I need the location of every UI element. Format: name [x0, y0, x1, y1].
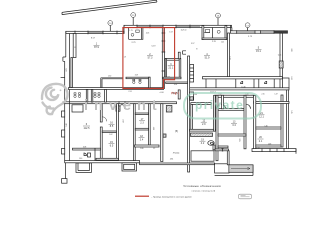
svg-text:87.9: 87.9	[94, 46, 99, 49]
WC fixtures in red unit	[133, 79, 142, 83]
svg-text:1.47: 1.47	[274, 93, 277, 95]
wall y101.8 left-middle	[63, 101, 177, 109]
svg-text:2.15: 2.15	[261, 93, 264, 95]
svg-text:8.5: 8.5	[110, 125, 114, 128]
wall x133.4	[133, 104, 135, 161]
shaft duct	[190, 65, 194, 83]
top-left small room in red unit	[129, 28, 143, 40]
svg-text:1.67: 1.67	[169, 32, 172, 34]
small gray stamp bottom right	[239, 194, 252, 199]
svg-text:17: 17	[141, 118, 144, 121]
small red-unit WC room walls	[126, 77, 150, 88]
red area label	[172, 91, 179, 95]
room number/area labels	[83, 43, 265, 155]
bottom wall middle y163	[140, 163, 215, 165]
staircase treads with arrow	[229, 165, 253, 173]
svg-text:4.84: 4.84	[170, 159, 173, 161]
wall y134 middle-right	[218, 134, 246, 136]
stair landing	[215, 164, 229, 173]
svg-text:1.48: 1.48	[268, 144, 271, 146]
axis circle 17	[245, 23, 250, 31]
svg-text:15: 15	[110, 141, 113, 144]
axis circle 16	[216, 13, 221, 25]
svg-text:invent: invent	[84, 98, 163, 114]
diagonal bar wall top-left	[62, 0, 157, 14]
axis circle 13	[131, 13, 136, 26]
WC room left cluster	[86, 90, 106, 103]
svg-text:2.43: 2.43	[290, 76, 292, 79]
svg-text:3.4: 3.4	[232, 124, 236, 127]
left exterior wall	[61, 32, 70, 184]
svg-text:15.1: 15.1	[256, 50, 261, 53]
svg-text:0.25: 0.25	[278, 55, 281, 57]
svg-text:ЛТ(2-Б): ЛТ(2-Б)	[173, 153, 180, 155]
svg-text:16: 16	[110, 122, 113, 125]
wall x116.5	[117, 104, 119, 161]
svg-text:1.93: 1.93	[229, 57, 231, 60]
wall x228 middle-right	[228, 33, 230, 77]
svg-text:57.3: 57.3	[148, 56, 153, 59]
red unit boundary	[123, 28, 175, 89]
svg-text:10.40: 10.40	[241, 86, 245, 88]
svg-text:1: 1	[96, 43, 98, 46]
svg-text:4.54: 4.54	[174, 84, 177, 86]
duct strip x73.5	[73, 34, 76, 58]
corridor bottom wall	[166, 82, 190, 84]
svg-text:4.2: 4.2	[201, 142, 205, 145]
big room bottom wall y148	[73, 148, 119, 160]
svg-text:2.9: 2.9	[202, 123, 206, 126]
hatched band shaft	[191, 133, 213, 136]
svg-text:1.40: 1.40	[194, 94, 197, 96]
svg-text:20: 20	[259, 136, 262, 139]
room below big room fixture	[84, 153, 91, 157]
svg-text:112.5: 112.5	[83, 127, 90, 130]
svg-text:2.1: 2.1	[259, 140, 263, 143]
svg-text:5.19: 5.19	[152, 45, 157, 47]
right exterior wall lower	[286, 88, 288, 149]
svg-text:private: private	[195, 98, 244, 112]
wall x148.5	[149, 104, 151, 145]
main interior wall W1 y87.6	[69, 88, 164, 90]
right balcony protrusion	[282, 78, 289, 88]
WC wall x71	[71, 58, 73, 88]
svg-text:3.4: 3.4	[140, 138, 144, 141]
wall y95.2 middle-right	[215, 95, 254, 97]
svg-text:4.05: 4.05	[146, 33, 149, 35]
legend red line sample	[135, 196, 192, 198]
porch 2	[122, 163, 137, 171]
svg-text:4: 4	[206, 53, 208, 56]
svg-text:51.9: 51.9	[205, 56, 210, 59]
svg-text:8.57: 8.57	[91, 37, 96, 39]
svg-text:+0.90: +0.90	[159, 92, 163, 94]
small room D on top wall	[202, 26, 227, 40]
svg-text:3.00: 3.00	[290, 48, 292, 51]
svg-text:12.1: 12.1	[259, 116, 264, 119]
wall y76.6 right section	[203, 77, 283, 88]
svg-text:1.30: 1.30	[108, 75, 111, 77]
bottom wall right wing	[252, 148, 296, 154]
exterior top wall B (middle, raised)	[124, 25, 232, 34]
svg-text:10-9.10: 10-9.10	[181, 30, 187, 32]
svg-text:2: 2	[149, 53, 151, 56]
svg-text:1.46: 1.46	[264, 126, 267, 128]
svg-text:9.97: 9.97	[191, 43, 194, 45]
small fixture glyph	[222, 149, 224, 152]
svg-text:- Граница помещения в составе: - Граница помещения в составе здания	[152, 196, 193, 198]
wall x100.3 vertical (with door gap)	[100, 104, 106, 161]
door marks corridor	[183, 51, 187, 54]
svg-text:1.60: 1.60	[79, 158, 82, 160]
bottom wall left y160.6	[65, 161, 140, 163]
watermark elephant logo	[42, 84, 68, 114]
svg-text:12: 12	[202, 119, 205, 122]
wall x187.8 long vertical	[188, 56, 190, 172]
wall x216	[214, 95, 218, 160]
svg-text:6: 6	[86, 123, 88, 126]
toilet fixtures left	[74, 93, 100, 98]
closet C2 above W1	[101, 78, 123, 88]
room K kitchen walls	[163, 59, 181, 79]
svg-text:5.25: 5.25	[290, 110, 292, 113]
svg-text:1.9: 1.9	[124, 57, 126, 59]
svg-text:8: 8	[74, 47, 75, 49]
legend title	[183, 184, 221, 193]
boundary line below stairs	[215, 165, 253, 176]
closet corridor	[190, 92, 194, 100]
pier hatched at wall y101.8	[116, 106, 172, 138]
svg-text:13: 13	[233, 121, 236, 124]
svg-text:1.2: 1.2	[153, 148, 155, 150]
svg-text:1.18: 1.18	[256, 147, 259, 149]
wall y101.5 right	[254, 102, 290, 104]
oval fixture room 19	[208, 141, 214, 146]
svg-text:6.05: 6.05	[66, 68, 68, 71]
closet below WC	[72, 105, 83, 112]
svg-text:Условные обозначения: Условные обозначения	[183, 184, 221, 188]
svg-text:3: 3	[170, 63, 172, 66]
svg-text:5.80: 5.80	[66, 123, 68, 126]
watermark text private	[195, 98, 244, 112]
svg-text:2.79: 2.79	[132, 42, 137, 44]
svg-text:1.62: 1.62	[109, 134, 112, 136]
svg-text:19: 19	[201, 138, 204, 141]
svg-text:7.61: 7.61	[128, 91, 131, 93]
wall x240 vertical	[178, 90, 246, 149]
svg-text:3.05: 3.05	[238, 138, 240, 141]
right rooms dividers	[256, 127, 281, 147]
middle rooms wall y129.3	[190, 129, 217, 131]
watermark green rounded frame	[184, 93, 261, 119]
svg-text:номера помещений: номера помещений	[192, 189, 216, 192]
step connector x=231.5	[230, 25, 232, 31]
svg-text:5.75: 5.75	[248, 36, 253, 38]
wall y87.8 right section	[190, 88, 289, 90]
small room dividers 17/18	[135, 113, 160, 147]
exterior top wall A (left)	[66, 31, 124, 35]
porch 1	[76, 163, 91, 172]
stairwell inner box	[191, 151, 214, 161]
interior wall x281 lower right	[281, 95, 283, 147]
svg-text:1.01: 1.01	[221, 41, 224, 43]
wall x162 (stair/corridor) upper	[162, 28, 166, 89]
wall x178.5 connector	[178, 52, 180, 59]
svg-text:3.08: 3.08	[83, 146, 86, 148]
svg-text:2.76: 2.76	[212, 41, 217, 43]
exterior top wall C (right wing)	[230, 30, 287, 34]
axis circle 14	[108, 21, 113, 32]
svg-text:4.11: 4.11	[152, 127, 154, 130]
svg-text:18: 18	[140, 135, 143, 138]
svg-text:5: 5	[258, 47, 260, 50]
wall x253.5 vertical right	[254, 96, 256, 149]
right exterior wall upper	[279, 33, 283, 88]
svg-text:3.19: 3.19	[135, 75, 138, 77]
tiny dimension texts	[66, 30, 292, 161]
divider y131 rooms 16/15	[102, 131, 116, 133]
svg-text:2.3: 2.3	[140, 121, 144, 124]
svg-text:1.86: 1.86	[140, 148, 143, 150]
watermark text invent	[84, 98, 163, 114]
svg-text:(5): (5)	[175, 130, 178, 133]
stair left wall x161	[161, 104, 163, 162]
svg-text:1.75: 1.75	[129, 30, 132, 32]
svg-text:1.50: 1.50	[167, 77, 170, 79]
middle room walls	[191, 103, 251, 130]
svg-text:2.97: 2.97	[122, 119, 124, 122]
svg-text:21.1: 21.1	[168, 66, 173, 69]
svg-text:8: 8	[196, 49, 198, 51]
wall y146 middle	[213, 145, 229, 165]
svg-text:6.5: 6.5	[110, 144, 114, 147]
